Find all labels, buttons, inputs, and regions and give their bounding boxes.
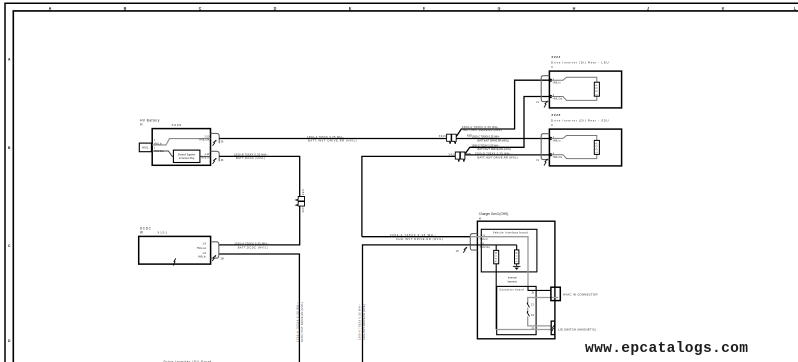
svg-text:HVIL In: HVIL In xyxy=(553,141,561,143)
wire W6 DI front up to splice2 xyxy=(362,156,455,236)
svg-text:X025: X025 xyxy=(550,113,560,117)
wire W1 label xyxy=(307,135,357,143)
wire W2 label xyxy=(234,153,268,161)
svg-text:X024: X024 xyxy=(550,55,560,59)
svg-text:Contactor board: Contactor board xyxy=(499,287,524,291)
LDU block xyxy=(549,71,621,108)
LDU connector arrow xyxy=(544,101,547,108)
svg-text:HVIL In: HVIL In xyxy=(198,256,207,259)
battery internal wire HVIL Out xyxy=(152,151,210,156)
LID return wire (gray) xyxy=(496,329,551,331)
R1 wire down to contactor xyxy=(495,264,497,330)
wire C2 to LID switch (gray) xyxy=(528,316,552,326)
svg-text:CHG,INVT DRIVE,FR (HVIL): CHG,INVT DRIVE,FR (HVIL) xyxy=(362,304,366,340)
ruler letters left xyxy=(8,57,11,343)
svg-text:X: X xyxy=(551,65,553,69)
svg-text:HVIL Out: HVIL Out xyxy=(154,150,164,153)
battery connector arrow 2 xyxy=(213,158,217,164)
svg-text:1500-D 705XX 0.35 WH--: 1500-D 705XX 0.35 WH-- xyxy=(472,144,500,148)
svg-text:HVIL In: HVIL In xyxy=(553,82,561,84)
svg-text:1V: 1V xyxy=(536,102,539,104)
svg-text:Drive Inverter (DI) Rear - LDU: Drive Inverter (DI) Rear - LDU xyxy=(551,60,609,64)
svg-text:LOOP: LOOP xyxy=(597,84,599,94)
DCDC block xyxy=(139,236,211,264)
svg-text:HVIL Out: HVIL Out xyxy=(200,139,210,142)
wire W5b splice up to LDU HVIL In xyxy=(456,80,549,136)
SDU loop resistor xyxy=(594,140,599,154)
DCDC connector bracket xyxy=(211,242,219,258)
SDU pin labels xyxy=(553,137,563,159)
svg-text:2004-A 705XX 0.35 WH--: 2004-A 705XX 0.35 WH-- xyxy=(390,233,436,237)
switch link xyxy=(527,308,529,312)
wire W5a label xyxy=(472,135,509,143)
wire W6b splice up to LDU HVIL Out xyxy=(465,97,549,154)
HV Battery label xyxy=(140,119,160,127)
SDU pin 2 xyxy=(549,153,552,156)
svg-text:HVIL In: HVIL In xyxy=(201,156,210,159)
DCDC bottom edge mark xyxy=(173,258,176,265)
svg-text:1: 1 xyxy=(154,147,156,150)
battery connector arrow 1 xyxy=(213,140,217,146)
Internal harness label xyxy=(508,275,518,283)
svg-text:BATT,INVT DRIVE,RR (HVIL): BATT,INVT DRIVE,RR (HVIL) xyxy=(308,139,357,143)
svg-text:HVIL Out: HVIL Out xyxy=(553,156,563,159)
svg-text:A: A xyxy=(8,57,11,61)
svg-text:HVIL In: HVIL In xyxy=(154,142,163,145)
svg-text:1500-B 705XX 0.35 WH--: 1500-B 705XX 0.35 WH-- xyxy=(234,153,268,157)
LDU internal wires xyxy=(551,77,597,100)
ruler letters top xyxy=(49,7,797,11)
splice connector X930 xyxy=(455,152,465,162)
svg-text:1505-A 705XX 0.35 WH--: 1505-A 705XX 0.35 WH-- xyxy=(296,302,300,342)
svg-text:H: H xyxy=(140,123,143,127)
svg-text:1-9: 1-9 xyxy=(203,243,207,246)
svg-text:X930: X930 xyxy=(449,154,457,156)
shorted at service plug box xyxy=(173,150,200,162)
svg-text:C1: C1 xyxy=(531,304,535,307)
Charger connector arrow xyxy=(463,247,467,253)
DCDC top wire label xyxy=(235,241,269,249)
svg-text:1500-D 705XX 0.35 WH--: 1500-D 705XX 0.35 WH-- xyxy=(475,151,512,155)
svg-text:X101: X101 xyxy=(157,230,167,234)
charger HVIL Out wire xyxy=(470,245,516,251)
wire W5a splice to SDU HVIL In xyxy=(456,138,549,140)
Contactor board xyxy=(497,286,536,334)
svg-text:BATT,INVT DRIVE,RR (HVIL): BATT,INVT DRIVE,RR (HVIL) xyxy=(478,147,512,151)
svg-text:BATT,DCDC (HVIL): BATT,DCDC (HVIL) xyxy=(236,156,265,160)
LDU title X024 xyxy=(550,55,608,69)
wire W5b label xyxy=(462,125,502,132)
switch C1 xyxy=(527,302,535,307)
svg-text:C: C xyxy=(8,244,11,248)
SDU connector arrow xyxy=(544,159,547,166)
DCDC connector arrow xyxy=(212,255,216,261)
svg-text:HVAC IN CONNECTOR: HVAC IN CONNECTOR xyxy=(563,292,598,296)
LDU connector bracket xyxy=(541,76,549,102)
wire W3 to charger HVIL In xyxy=(362,236,470,238)
LID switch box xyxy=(551,321,555,335)
svg-text:B: B xyxy=(8,146,11,150)
LDU pin labels xyxy=(553,79,563,101)
HV Battery block xyxy=(152,129,210,166)
wire W3 label xyxy=(390,233,443,241)
svg-text:CHG,INVT DRIVE,RR (HVIL): CHG,INVT DRIVE,RR (HVIL) xyxy=(396,237,443,241)
svg-text:X931: X931 xyxy=(303,188,305,195)
battery connector bracket 1 xyxy=(211,133,220,143)
SDU title X025 xyxy=(550,113,608,127)
DCDC label xyxy=(140,226,152,234)
svg-text:HV Battery: HV Battery xyxy=(140,119,160,123)
HVIL box xyxy=(139,143,151,152)
svg-text:LID SWITCH (MAGNETIC): LID SWITCH (MAGNETIC) xyxy=(558,328,596,332)
battery pin labels left xyxy=(154,139,164,153)
SDU block xyxy=(549,129,621,166)
resistor R1 xyxy=(494,250,499,263)
ruler ticks top xyxy=(50,10,795,11)
battery internal wire HVIL In (gray) xyxy=(152,139,210,145)
svg-text:H: H xyxy=(479,216,481,220)
HVAC IN connector box xyxy=(551,287,560,300)
svg-text:X: X xyxy=(551,123,553,127)
svg-text:1501-A 705XX 0.35 WH--: 1501-A 705XX 0.35 WH-- xyxy=(235,241,269,245)
svg-text:X931: X931 xyxy=(303,205,305,212)
splice connector X929 xyxy=(447,134,457,144)
wire W2 battery HVIL out down to DCDC xyxy=(219,156,300,245)
ground triangle xyxy=(514,268,519,270)
svg-text:Charger Gen3 (OHS): Charger Gen3 (OHS) xyxy=(479,212,509,216)
svg-text:1H: 1H xyxy=(456,251,459,253)
svg-text:HVIL: HVIL xyxy=(142,146,149,150)
battery pin labels right xyxy=(200,135,210,159)
inline connector X931 on vertical wire xyxy=(296,197,305,207)
svg-text:1500-A 705XX 0.35 WH--: 1500-A 705XX 0.35 WH-- xyxy=(307,135,344,139)
svg-text:Shorted Together: Shorted Together xyxy=(178,153,196,156)
svg-text:X929: X929 xyxy=(439,136,447,138)
DCDC pin labels xyxy=(197,243,207,259)
svg-text:1M: 1M xyxy=(221,259,224,261)
svg-text:D: D xyxy=(8,339,11,343)
svg-text:X099: X099 xyxy=(172,123,182,127)
svg-text:harness: harness xyxy=(508,279,518,283)
svg-text:J9: J9 xyxy=(531,292,534,295)
svg-text:1V: 1V xyxy=(536,160,539,162)
svg-text:HVIL In: HVIL In xyxy=(480,238,489,241)
svg-text:1506-A 705XX 0.35 WH--: 1506-A 705XX 0.35 WH-- xyxy=(357,304,361,340)
svg-text:HVIL Out: HVIL Out xyxy=(553,98,563,101)
LID switch arrow xyxy=(552,325,555,331)
svg-text:BATT,INVT DRIVE,RR (HVIL): BATT,INVT DRIVE,RR (HVIL) xyxy=(478,156,519,160)
svg-text:www.epcatalogs.com: www.epcatalogs.com xyxy=(585,341,748,357)
battery connector bracket 2 xyxy=(211,151,220,161)
svg-text:HVIL out: HVIL out xyxy=(197,247,207,250)
LDU loop resistor xyxy=(594,82,599,96)
svg-text:Internal: Internal xyxy=(508,275,517,279)
HVAC return wire (gray) xyxy=(528,298,559,303)
Charger connector bracket xyxy=(470,234,477,251)
svg-text:at Service Plug: at Service Plug xyxy=(179,157,195,160)
Charger Gen3 label xyxy=(479,212,509,221)
Vehicle Interface board xyxy=(481,229,537,272)
Charger outer block xyxy=(477,221,555,339)
svg-text:26: 26 xyxy=(221,142,224,144)
svg-text:BATT,INVT DRIVE,RR (HVIL): BATT,INVT DRIVE,RR (HVIL) xyxy=(478,138,510,142)
contactor J9 wire to HVAC xyxy=(528,286,551,290)
svg-text:Drive Inverter (DI) Rear - SDU: Drive Inverter (DI) Rear - SDU xyxy=(551,118,609,122)
resistor R2 xyxy=(515,250,519,264)
svg-text:BATT,DCDC (HVIL): BATT,DCDC (HVIL) xyxy=(238,245,268,249)
SDU connector bracket xyxy=(541,134,549,160)
wire W1 battery to splice X929 xyxy=(219,138,446,140)
svg-text:1500-C 705XX 0.35 WH--: 1500-C 705XX 0.35 WH-- xyxy=(472,135,500,139)
inline connector X931 labels xyxy=(303,188,305,213)
svg-text:26: 26 xyxy=(221,160,224,162)
DCDC lower wire down to DI front xyxy=(219,254,300,362)
ground under R2 xyxy=(513,264,521,267)
svg-text:HVIL Out: HVIL Out xyxy=(480,246,490,249)
svg-text:BATT,INVT DRIVE,RR (HVIL): BATT,INVT DRIVE,RR (HVIL) xyxy=(464,128,503,132)
wire W4 charger HVIL Out down to DI front xyxy=(363,245,471,362)
SDU internal wires xyxy=(551,136,597,159)
wire W6a splice to SDU HVIL Out xyxy=(465,154,549,156)
charger HVIL In wire (gray) xyxy=(470,237,528,287)
svg-text:W: W xyxy=(140,230,143,234)
switch C2 xyxy=(527,311,535,317)
LDU pin 1 xyxy=(549,79,552,82)
VIB pin labels xyxy=(480,234,490,249)
svg-text:DCDC,INVT DRIVE,FR (HVIL): DCDC,INVT DRIVE,FR (HVIL) xyxy=(300,302,304,342)
wire W6a label xyxy=(475,151,518,159)
svg-text:Vehicle Interface board: Vehicle Interface board xyxy=(493,231,528,235)
LDU pin 2 xyxy=(549,95,552,98)
SDU pin 1 xyxy=(549,137,552,140)
svg-text:C2: C2 xyxy=(531,314,535,317)
svg-text:LOOP: LOOP xyxy=(597,142,599,152)
wire W6b label xyxy=(472,144,512,151)
